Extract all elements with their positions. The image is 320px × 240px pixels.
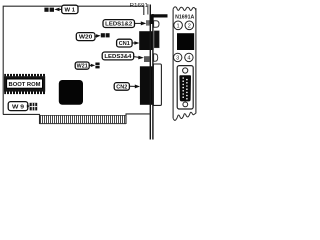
svg-text:N1691A: N1691A xyxy=(175,15,194,21)
svg-text:W 9: W 9 xyxy=(12,104,24,110)
connector CN1 jack through bracket xyxy=(154,31,159,48)
ISA edge connector xyxy=(40,115,127,124)
svg-text:LEDS1&2: LEDS1&2 xyxy=(105,22,132,28)
AUI pin holes xyxy=(182,77,187,99)
svg-text:CN1: CN1 xyxy=(119,41,130,47)
connector CN2 shell through bracket xyxy=(153,64,161,105)
svg-text:W 1: W 1 xyxy=(65,7,76,13)
IC U1 (controller chip) xyxy=(59,80,83,105)
LED hole 3 xyxy=(174,53,182,61)
bracket slot (black) xyxy=(177,33,194,50)
W9 pointer xyxy=(27,105,30,108)
svg-text:W20: W20 xyxy=(79,35,93,41)
screw hole top xyxy=(183,68,188,73)
svg-text:CN2: CN2 xyxy=(116,85,127,91)
svg-text:LEDS3&4: LEDS3&4 xyxy=(104,54,131,60)
CN1 pointer xyxy=(132,41,139,45)
W20 pointer xyxy=(95,34,101,38)
AUI D-shell xyxy=(179,75,191,101)
label W20 xyxy=(76,33,95,41)
LED hole 2 xyxy=(185,21,194,30)
label W1 pointer xyxy=(54,8,62,12)
svg-text:4: 4 xyxy=(187,56,190,62)
bracket top flange xyxy=(150,14,168,24)
label BOOT ROM xyxy=(7,79,43,88)
connector CN1 body xyxy=(139,31,153,50)
panel right edge xyxy=(195,8,197,113)
LED hole 1 xyxy=(174,21,183,30)
svg-text:W21: W21 xyxy=(77,64,88,70)
svg-text:BOOT ROM: BOOT ROM xyxy=(9,82,42,88)
jumper W1 xyxy=(44,8,54,12)
LED hole 4 xyxy=(185,53,193,61)
jumper W9 xyxy=(30,103,38,111)
label W1 xyxy=(62,5,78,13)
CN2 pointer xyxy=(129,85,140,89)
jumper W21 xyxy=(95,63,99,69)
label LEDS1&2 xyxy=(103,20,135,28)
BOOT ROM socket body xyxy=(4,74,45,94)
connector CN2 body (AUI) xyxy=(140,66,153,105)
LED 1&2 body xyxy=(146,20,150,25)
card outline (PCB) xyxy=(3,6,150,124)
label W21 xyxy=(75,62,89,70)
screw hole bottom xyxy=(183,102,188,107)
AUI connector bezel xyxy=(177,66,193,109)
LEDS3&4 pointer xyxy=(134,56,144,60)
label CN1 xyxy=(117,39,133,47)
label W9 xyxy=(8,102,28,111)
label LEDS3&4 xyxy=(102,52,134,60)
svg-text:1: 1 xyxy=(177,23,180,29)
LEDS1&2 pointer xyxy=(135,21,147,25)
W21 pointer xyxy=(89,64,95,67)
label CN2 xyxy=(114,83,129,91)
LED 3&4 body xyxy=(144,56,150,62)
panel torn top edge xyxy=(173,7,196,11)
jumper W20 xyxy=(101,33,110,37)
LED 1&2 lens tab through bracket xyxy=(154,21,159,28)
panel torn bottom edge xyxy=(173,112,196,120)
svg-text:3: 3 xyxy=(176,56,179,62)
svg-text:2: 2 xyxy=(188,23,191,29)
bracket rails xyxy=(148,4,153,139)
LED 3&4 lens tab through bracket xyxy=(154,54,158,61)
panel left edge xyxy=(172,9,174,118)
svg-text:R1691: R1691 xyxy=(130,3,149,9)
